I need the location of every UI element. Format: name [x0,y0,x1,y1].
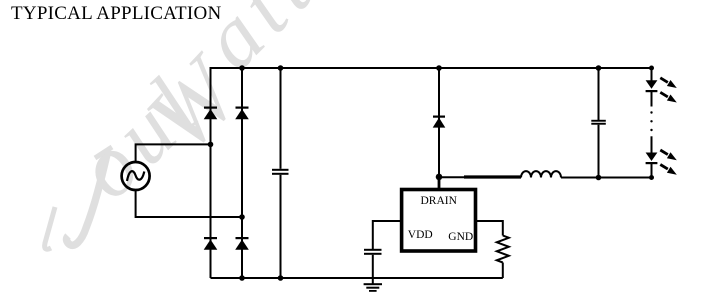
capacitor C1 [272,67,289,278]
LED D7 arrows [660,150,677,175]
inductor L1 [521,171,561,177]
svg-text:VDD: VDD [408,229,433,241]
title [11,3,221,25]
wire bridge right leg [241,67,243,278]
wire dotted to LED2 [651,136,653,152]
node AC top junction [208,142,214,148]
capacitor C3 [591,67,606,178]
diode D2 [235,107,249,120]
wire top rail [211,67,652,69]
svg-text:GND: GND [448,231,473,243]
LED D6 [646,80,658,106]
LED D6 arrows [660,78,677,103]
wire AC bottom [136,190,242,218]
wire drain to inductor [439,176,465,178]
wire thick segment to inductor [464,175,521,178]
wire GND pin [477,221,503,236]
LED D7 [646,153,658,178]
wire drain leg [438,67,440,178]
node C1 bottom [278,275,284,281]
node C1 top [278,65,284,71]
wire drain pin stub [438,178,441,190]
svg-text:DRAIN: DRAIN [420,195,457,207]
watermark [93,93,188,183]
ground symbol [364,283,382,292]
wire inductor to LED return [561,177,652,179]
wire VDD pin [373,221,400,249]
node LED top corner [649,66,654,71]
node C3 bottom [596,175,602,181]
diode D1 [204,107,218,120]
watermark [218,0,301,54]
op IC U1 [402,190,476,252]
node D2 top [239,65,245,71]
wire resistor bottom [502,263,504,279]
diode D4 [235,237,249,250]
capacitor C2 [364,249,382,284]
diode D5 [433,116,446,128]
resistor R1 [497,236,509,263]
wire bottom rail [211,277,503,279]
dotted wire between LEDs [650,111,652,131]
node D5 top [436,65,442,71]
node C3 top [596,65,602,71]
AC source V1 [122,162,150,190]
diode D3 [204,237,218,250]
node AC bottom junction [239,214,245,220]
watermark [165,77,220,135]
wire bridge left leg [210,67,212,278]
wire LED string upper [651,67,653,81]
node D4 bottom [239,275,245,281]
node drain junction [436,174,443,181]
wire AC top [136,144,211,162]
node LED bottom corner [649,175,654,180]
